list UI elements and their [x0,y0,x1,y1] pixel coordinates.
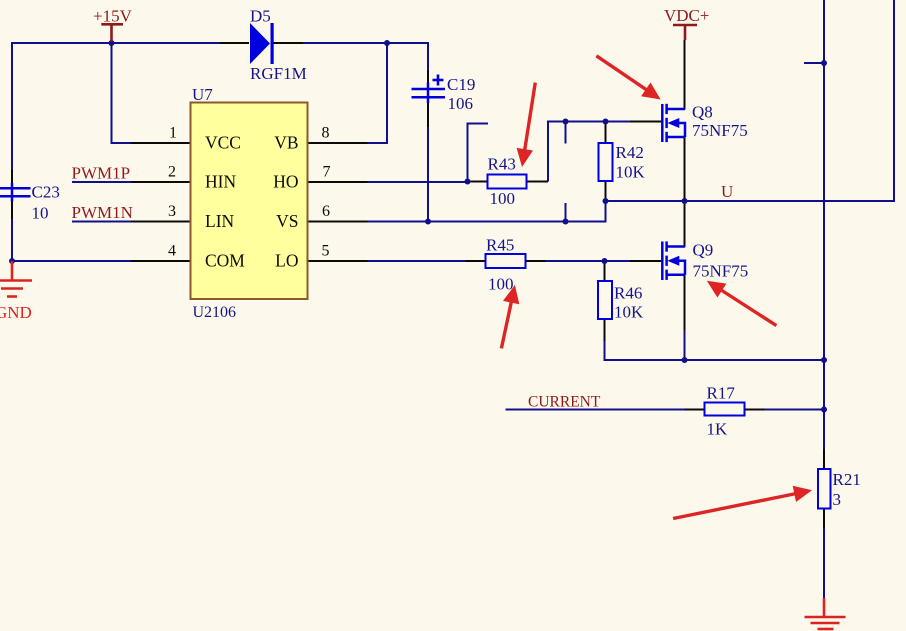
svg-text:VCC: VCC [205,133,241,153]
svg-text:U7: U7 [192,85,213,104]
svg-text:LIN: LIN [205,211,235,231]
svg-text:COM: COM [205,251,245,271]
svg-text:3: 3 [833,490,842,509]
svg-text:3: 3 [168,203,176,220]
svg-text:C19: C19 [447,75,475,94]
svg-text:R43: R43 [488,155,516,174]
svg-text:C23: C23 [32,183,60,202]
svg-text:U2106: U2106 [193,304,237,321]
svg-text:GND: GND [0,303,32,322]
svg-text:R45: R45 [486,236,514,255]
svg-text:75NF75: 75NF75 [692,121,748,140]
svg-text:6: 6 [322,203,330,220]
svg-text:100: 100 [490,189,516,208]
svg-text:106: 106 [448,94,474,113]
svg-text:4: 4 [168,243,176,260]
svg-text:VS: VS [276,211,298,231]
svg-text:+15V: +15V [93,7,133,26]
svg-text:75NF75: 75NF75 [693,262,749,281]
svg-text:LO: LO [275,251,298,271]
svg-text:100: 100 [488,275,514,294]
svg-text:7: 7 [323,164,331,181]
svg-text:HO: HO [273,172,298,192]
svg-text:R46: R46 [614,284,642,303]
svg-text:HIN: HIN [205,172,236,192]
svg-text:5: 5 [322,243,330,260]
svg-text:2: 2 [168,164,176,181]
svg-text:VB: VB [274,133,298,153]
svg-text:PWM1P: PWM1P [72,164,131,183]
svg-text:CURRENT: CURRENT [528,394,601,411]
svg-text:8: 8 [322,125,330,142]
svg-text:Q8: Q8 [692,103,713,122]
svg-text:10K: 10K [616,163,646,182]
svg-text:Q9: Q9 [693,241,714,260]
svg-text:R17: R17 [707,384,736,403]
svg-text:U: U [721,182,733,201]
svg-text:R21: R21 [833,470,861,489]
svg-text:RGF1M: RGF1M [250,64,307,83]
svg-text:1K: 1K [707,420,729,439]
svg-text:VDC+: VDC+ [664,6,709,25]
svg-text:1: 1 [169,125,177,142]
svg-text:10K: 10K [614,303,644,322]
svg-text:D5: D5 [250,7,271,26]
svg-text:10: 10 [32,204,49,223]
svg-text:R42: R42 [616,143,644,162]
svg-text:PWM1N: PWM1N [72,203,133,222]
